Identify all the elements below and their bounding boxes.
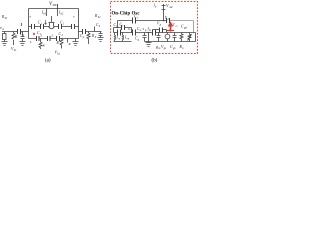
svg-text:R: R xyxy=(68,42,71,46)
svg-text:(a): (a) xyxy=(45,58,51,63)
svg-text:b2: b2 xyxy=(61,13,64,16)
svg-text:L: L xyxy=(40,34,43,38)
svg-text:R: R xyxy=(14,35,18,39)
svg-text:m: m xyxy=(149,29,151,32)
svg-text:m: m xyxy=(176,25,178,28)
svg-text:R: R xyxy=(56,41,60,45)
svg-text:b1: b1 xyxy=(5,17,8,20)
svg-text:R: R xyxy=(42,44,46,48)
svg-text:gs: gs xyxy=(164,47,166,50)
svg-text:a: a xyxy=(3,28,5,31)
svg-text:osc: osc xyxy=(169,6,173,9)
svg-text:DD: DD xyxy=(52,3,58,7)
svg-text:p: p xyxy=(159,24,162,27)
svg-text:b1: b1 xyxy=(14,49,17,52)
svg-text:b2: b2 xyxy=(98,16,101,19)
svg-text:v: v xyxy=(30,15,32,19)
svg-text:(b): (b) xyxy=(152,58,158,63)
svg-text:gd: gd xyxy=(184,27,187,30)
svg-text:b: b xyxy=(155,6,157,9)
svg-text:g: g xyxy=(138,39,140,42)
svg-text:2: 2 xyxy=(63,23,65,26)
svg-text:b: b xyxy=(99,25,101,28)
svg-text:L: L xyxy=(51,34,54,38)
svg-text:b2: b2 xyxy=(57,53,60,56)
svg-text:p: p xyxy=(82,36,85,39)
svg-text:c: c xyxy=(137,17,139,20)
svg-text:m: m xyxy=(127,38,129,41)
svg-text:1: 1 xyxy=(41,23,43,26)
svg-text:gs: gs xyxy=(173,47,175,50)
svg-text:4: 4 xyxy=(61,34,63,37)
svg-text:L: L xyxy=(29,40,32,44)
svg-text:a: a xyxy=(119,38,121,41)
svg-text:o: o xyxy=(182,47,184,50)
svg-text:o: o xyxy=(140,29,142,32)
svg-text:i: i xyxy=(122,25,123,28)
svg-text:b: b xyxy=(95,36,97,39)
svg-text:v: v xyxy=(73,15,75,19)
